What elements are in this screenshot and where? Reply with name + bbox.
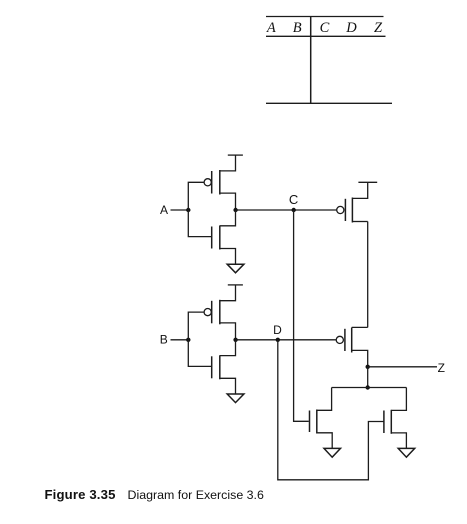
svg-text:C: C [320, 20, 330, 36]
nmos Q4 channel bar [219, 355, 221, 379]
wire A input [171, 209, 189, 211]
truth table column divider [310, 17, 312, 104]
ground inverter A [227, 264, 244, 273]
svg-text:A: A [266, 20, 276, 36]
pmos Q5 bubble [337, 206, 344, 213]
wire B input [171, 339, 189, 341]
wire node Z output [368, 366, 437, 368]
pmos Q5 source lead [352, 221, 367, 223]
pmos Q6 channel bar [351, 328, 353, 353]
junction inverter A output [233, 208, 237, 212]
pmos Q3 bubble [204, 309, 211, 316]
pmos Q1 channel bar [219, 170, 221, 195]
nmos Q8 gate bar [383, 411, 385, 434]
pmos Q1 drain lead [220, 155, 236, 171]
vdd symbol Q5 [358, 181, 377, 183]
svg-text:B: B [160, 333, 168, 347]
ground inverter B [227, 394, 244, 403]
pmos Q6 source lead [352, 350, 368, 366]
pmos Q6 gate bar [344, 329, 346, 351]
pmos Q6 bubble [336, 336, 343, 343]
pulldown rail wire [332, 387, 407, 389]
nmos Q2 channel bar [219, 226, 221, 250]
figure caption [45, 487, 264, 502]
truth table bottom rule [266, 102, 392, 104]
pmos Q1 gate bar [211, 171, 213, 194]
wire Q5 source to Q6 drain [367, 222, 369, 328]
pmos Q3 drain lead [220, 285, 236, 301]
svg-text:A: A [160, 203, 168, 217]
wire Z to pulldown rail [367, 367, 369, 388]
node C dot [292, 208, 296, 212]
ground Q8 [398, 448, 415, 457]
junction pulldown rail [366, 385, 370, 389]
truth table top rule [266, 16, 384, 18]
svg-text:Z: Z [438, 361, 445, 375]
nmos Q4 source lead [220, 378, 236, 394]
junction input B [186, 338, 190, 342]
pmos Q3 channel bar [219, 300, 221, 325]
svg-text:D: D [345, 20, 357, 36]
nmos Q2 drain lead [220, 210, 236, 226]
wire node C to Q7 gate [294, 210, 309, 421]
pmos Q3 gate bar [211, 301, 213, 324]
nmos Q8 channel bar [390, 410, 392, 434]
nmos Q4 gate bar [211, 356, 213, 378]
vdd symbol inverter A [228, 154, 243, 156]
svg-text:Z: Z [374, 20, 383, 36]
svg-text:D: D [273, 323, 282, 337]
pmos Q5 gate bar [344, 199, 346, 221]
nmos Q2 source lead [220, 249, 236, 265]
nmos Q7 source lead [317, 433, 332, 448]
nmos Q8 source lead [391, 433, 406, 448]
wire node D to Q8 gate [278, 340, 384, 480]
pmos Q5 channel bar [351, 198, 353, 223]
pmos Q3 source lead [220, 323, 236, 340]
wire B gate branch [188, 312, 211, 366]
junction input A [186, 208, 190, 212]
vdd symbol inverter B [228, 284, 243, 286]
svg-text:B: B [293, 20, 302, 36]
nmos Q7 gate bar [309, 411, 311, 433]
truth table header rule [266, 35, 386, 37]
pmos Q6 drain lead [352, 326, 368, 328]
pmos Q1 source lead [220, 193, 236, 210]
nmos Q7 channel bar [316, 410, 318, 434]
pmos Q5 drain lead [352, 182, 367, 198]
node D dot [276, 338, 280, 342]
nmos Q2 gate bar [211, 227, 213, 249]
ground Q7 [324, 448, 341, 457]
nmos Q8 drain lead [391, 388, 406, 411]
pmos Q1 bubble [204, 179, 211, 186]
junction inverter B output [233, 338, 237, 342]
svg-text:C: C [289, 192, 298, 207]
nmos Q4 drain lead [220, 340, 236, 356]
node Z dot [366, 365, 370, 369]
wire inverter A output to node C and Q5 gate [236, 209, 337, 211]
wire A gate branch [188, 182, 211, 236]
wire inverter B output to node D and Q6 gate [236, 339, 336, 341]
nmos Q7 drain lead [317, 388, 332, 411]
